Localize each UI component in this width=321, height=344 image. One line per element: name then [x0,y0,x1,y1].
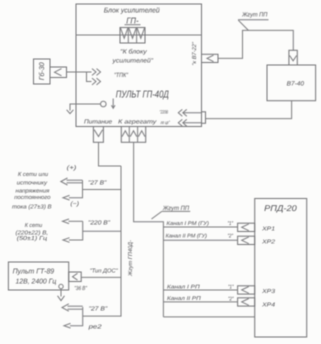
terminal circle [101,101,107,107]
wire В7-40 to edge connector [206,101,292,119]
wire Гб-30 to ТПК [67,71,92,73]
connector (2-pin) on right edge [202,112,206,124]
svg-text:"220 В": "220 В" [88,219,111,226]
connector ГП- (3-pin) [120,28,145,44]
svg-text:"27 В": "27 В" [88,179,107,186]
connector к В7-22 on right edge [202,54,219,62]
svg-text:"ТПК": "ТПК" [114,72,129,79]
svg-text:ХР2: ХР2 [261,238,276,245]
svg-text:"2": "2" [228,296,234,302]
connector ХР4 [238,298,255,306]
arrow 220V bottom [63,238,70,243]
svg-text:К сети: К сети [25,223,43,229]
connector ХР1 [238,223,255,231]
svg-text:"27 В": "27 В" [89,306,109,313]
svg-text:Жгут ГП40Д-: Жгут ГП40Д- [128,240,134,277]
connector ХР2 [238,236,255,244]
box Пульт ГТ-89 [8,262,68,290]
svg-text:"36 В": "36 В" [74,285,87,292]
arrow 220V top [63,219,83,224]
svg-text:ре2: ре2 [87,324,102,331]
divider line of amplifier section [76,34,202,36]
svg-text:Жгут ПП: Жгут ПП [241,11,268,18]
arrow 27V regulated (hollow) [62,304,83,311]
svg-text:Блок усилителей: Блок усилителей [104,7,160,15]
connector Тип ДОС on ГТ-89 [69,272,82,282]
svg-text:Канал II РП: Канал II РП [167,296,201,302]
wire К агрегату cable [134,142,164,317]
svg-text:К агрегату: К агрегату [118,119,157,126]
connector on В7-40 input [289,50,297,65]
arrow reg [64,323,71,328]
arrow -27V [63,195,70,200]
connector К агрегату (bottom edge, 3-pin) [121,127,145,143]
label ГП- [125,16,141,26]
wire 220V feed [83,230,121,232]
svg-text:Пульт ГТ-89: Пульт ГТ-89 [13,267,55,276]
svg-text:источнику: источнику [17,180,48,186]
svg-text:РПД-20: РПД-20 [264,203,297,213]
wire shield to РПД-20 [163,316,254,318]
svg-text:Канал I РМ (ГУ): Канал I РМ (ГУ) [167,221,210,227]
unit box ПУЛЬТ ГП-40Д [76,4,202,127]
terminal circle on ГТ-89 [59,284,63,288]
wire Канал II РП [163,301,237,303]
svg-text:12В, 2400 Гц: 12В, 2400 Гц [16,279,57,286]
wire Канал I РП [163,289,237,291]
svg-text:напряжения: напряжения [16,188,50,194]
wire Питание to supply bus [99,142,122,166]
wire fork reg [70,307,83,326]
wire Канал II РМ [163,239,237,241]
svg-text:Питание: Питание [84,119,113,126]
wire chevrons to edge connector [183,112,202,114]
svg-text:лг цг": лг цг" [160,120,170,126]
left text К сети или источнику... [12,172,52,211]
ground (chassis) [67,110,74,114]
svg-text:усилителей": усилителей" [111,58,153,65]
svg-text:"2": "2" [228,233,234,239]
svg-text:постоянного: постоянного [14,195,51,201]
down arrow marker [111,99,115,109]
wire к В7-22 to В7-40 [218,30,293,58]
label Жгут ПП (bottom) [152,205,191,219]
svg-text:ХР1: ХР1 [261,226,275,232]
wire 220V fork [69,221,83,240]
wire circle to chassis ground [70,104,101,111]
svg-text:К сети или: К сети или [18,172,49,178]
svg-text:"к В7-22": "к В7-22" [192,41,198,65]
svg-text:ГП-: ГП- [126,16,139,26]
wire 27V fork [69,180,83,198]
svg-text:Гб-30: Гб-30 [38,62,46,80]
wire Канал I РМ [163,226,237,228]
svg-text:"1": "1" [228,285,234,291]
svg-text:"Тип ДОС": "Тип ДОС" [90,267,119,274]
svg-text:тока (27±3) В: тока (27±3) В [12,204,52,211]
svg-text:Жгут ПП: Жгут ПП [162,205,190,212]
connector on Гб-30 output [50,67,67,78]
svg-text:"220В: "220В [160,110,169,116]
svg-text:ПУЛЬТ ГП-40Д: ПУЛЬТ ГП-40Д [116,90,169,101]
svg-text:ХР3: ХР3 [261,288,276,295]
svg-text:(50±1) Гц: (50±1) Гц [17,235,48,242]
ground (chassis) [58,296,65,301]
wire 27V feed [83,189,122,191]
connector ХР3 [238,286,255,294]
left text К сети (220±22)В [16,223,49,242]
box Гб-30 [34,59,51,84]
svg-text:Канал I РП: Канал I РП [167,285,200,291]
svg-text:В7-40: В7-40 [287,80,305,87]
supply bus (Жгут ГП40Д-) [83,166,121,316]
instrument box В7-40 [267,65,316,101]
wire [184,122,202,124]
arrow +27V (hollow) [61,178,83,185]
svg-text:(−): (−) [70,200,79,207]
wire to ground [60,289,62,297]
wire branch to second ТПК chevron [87,72,92,82]
svg-text:Канал II РМ (ГУ): Канал II РМ (ГУ) [166,233,208,239]
unit box РПД-20 [255,199,307,338]
svg-text:"1": "1" [228,221,234,227]
svg-text:(+): (+) [67,164,77,171]
svg-text:ХР4: ХР4 [261,302,275,308]
chevron arrows to В7-40 lines (into unit) [178,109,187,126]
chevron arrows ТПК (into unit) [92,69,101,85]
svg-text:"К блоку: "К блоку [120,49,147,56]
label Жгут ПП (top) [238,11,269,30]
wire Тип ДОС to bus [81,276,121,278]
connector Питание (bottom edge) [93,127,103,143]
